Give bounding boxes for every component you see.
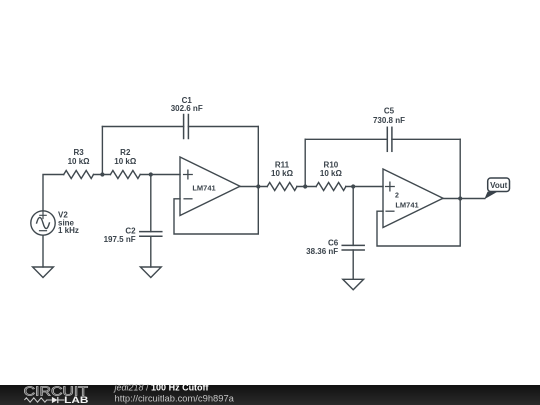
- voltage source V2: [31, 211, 55, 235]
- resistor R10: [316, 183, 346, 191]
- logo diode symbol: [52, 397, 65, 403]
- wire: node B down to C2: [150, 175, 152, 232]
- wire: V2 bottom lead to ground: [42, 235, 44, 267]
- junction node D (R10/U2+/C6): [351, 184, 355, 188]
- junction node A (R3/R2/C1 rail): [100, 172, 104, 176]
- svg-text:10 kΩ: 10 kΩ: [320, 169, 343, 178]
- wire: node C up to stage-2 top rail: [304, 139, 306, 186]
- svg-text:10 kΩ: 10 kΩ: [68, 157, 91, 166]
- logo resistor squiggle: [24, 398, 52, 402]
- V2 sine waveform: [37, 217, 50, 228]
- svg-text:http://circuitlab.com/c9h897a: http://circuitlab.com/c9h897a: [115, 393, 234, 403]
- wire: R2 to op-amp U1 non-inverting input: [140, 174, 180, 176]
- wire: feedback rail down to output node of U1: [257, 127, 259, 187]
- svg-text:302.6 nF: 302.6 nF: [171, 104, 203, 113]
- ground: below C2: [140, 267, 161, 278]
- capacitor C5: [387, 127, 392, 151]
- svg-text:Vout: Vout: [490, 181, 508, 190]
- junction node: U1 output: [256, 184, 260, 188]
- junction node C (R11/R10/C5 rail): [303, 184, 307, 188]
- resistor R11: [267, 183, 297, 191]
- wire: stage-2 top rail right of C5: [392, 138, 460, 140]
- wire: R10 to op-amp U2 non-inverting input: [346, 186, 383, 188]
- wire: stage-2 feedback rail down to output node of U2: [459, 139, 461, 198]
- svg-text:LM741: LM741: [395, 200, 418, 209]
- wire: R11 to R10 through node C: [297, 186, 316, 188]
- svg-text:730.8 nF: 730.8 nF: [373, 116, 405, 125]
- wire: U1 output to R11: [240, 186, 267, 188]
- svg-text:C5: C5: [384, 107, 395, 116]
- wire: U1 inverting feedback loop: [174, 187, 258, 235]
- wire: stage-2 top rail left of C5: [305, 138, 387, 140]
- wire: U2 inverting feedback loop: [377, 199, 460, 247]
- V2 polarity plus: [40, 212, 46, 218]
- svg-text:R3: R3: [73, 148, 84, 157]
- wire: top rail left of C1: [102, 126, 183, 128]
- svg-text:2: 2: [395, 192, 399, 199]
- capacitor C6: [342, 245, 364, 250]
- svg-text:jedi218 / 100 Hz Cutoff: jedi218 / 100 Hz Cutoff: [114, 382, 210, 392]
- resistor R3: [64, 171, 94, 179]
- wire: U2 output to Vout: [443, 198, 485, 200]
- svg-text:LAB: LAB: [64, 395, 89, 405]
- wire: R3 to R2 through node A: [94, 174, 111, 176]
- wire: V2 top lead up to main line corner: [43, 175, 64, 211]
- resistor R2: [110, 171, 140, 179]
- svg-text:38.36 nF: 38.36 nF: [306, 247, 338, 256]
- capacitor C2: [140, 232, 162, 237]
- wire: node D down to C6: [352, 187, 354, 246]
- ground: below C6: [343, 279, 364, 289]
- wire: top rail right of C1: [188, 126, 258, 128]
- junction node B (R2/U1+/C2): [149, 172, 153, 176]
- capacitor C1: [184, 115, 189, 139]
- flag Vout: [484, 178, 509, 199]
- svg-text:C2: C2: [125, 226, 136, 235]
- op-amp U1 minus pin marker: [184, 198, 192, 200]
- wire: node A up to feedback top rail: [101, 127, 103, 175]
- V2 polarity minus: [40, 230, 47, 232]
- op-amp U2: [383, 169, 443, 228]
- op-amp U1: [180, 157, 240, 216]
- svg-text:LM741: LM741: [192, 183, 215, 192]
- wire: C6 to ground: [352, 250, 354, 279]
- svg-text:10 kΩ: 10 kΩ: [114, 157, 137, 166]
- footer bar: [0, 385, 540, 405]
- op-amp U1 plus pin marker: [184, 170, 193, 179]
- svg-text:R2: R2: [120, 148, 131, 157]
- wire: C2 to ground: [150, 236, 152, 267]
- junction node: U2 output: [458, 196, 462, 200]
- svg-text:1 kHz: 1 kHz: [58, 226, 79, 235]
- op-amp U2 minus pin marker: [386, 210, 394, 212]
- svg-text:197.5 nF: 197.5 nF: [104, 235, 136, 244]
- svg-text:10 kΩ: 10 kΩ: [271, 169, 294, 178]
- ground: below V2: [33, 267, 54, 278]
- op-amp U2 plus pin marker: [386, 182, 395, 191]
